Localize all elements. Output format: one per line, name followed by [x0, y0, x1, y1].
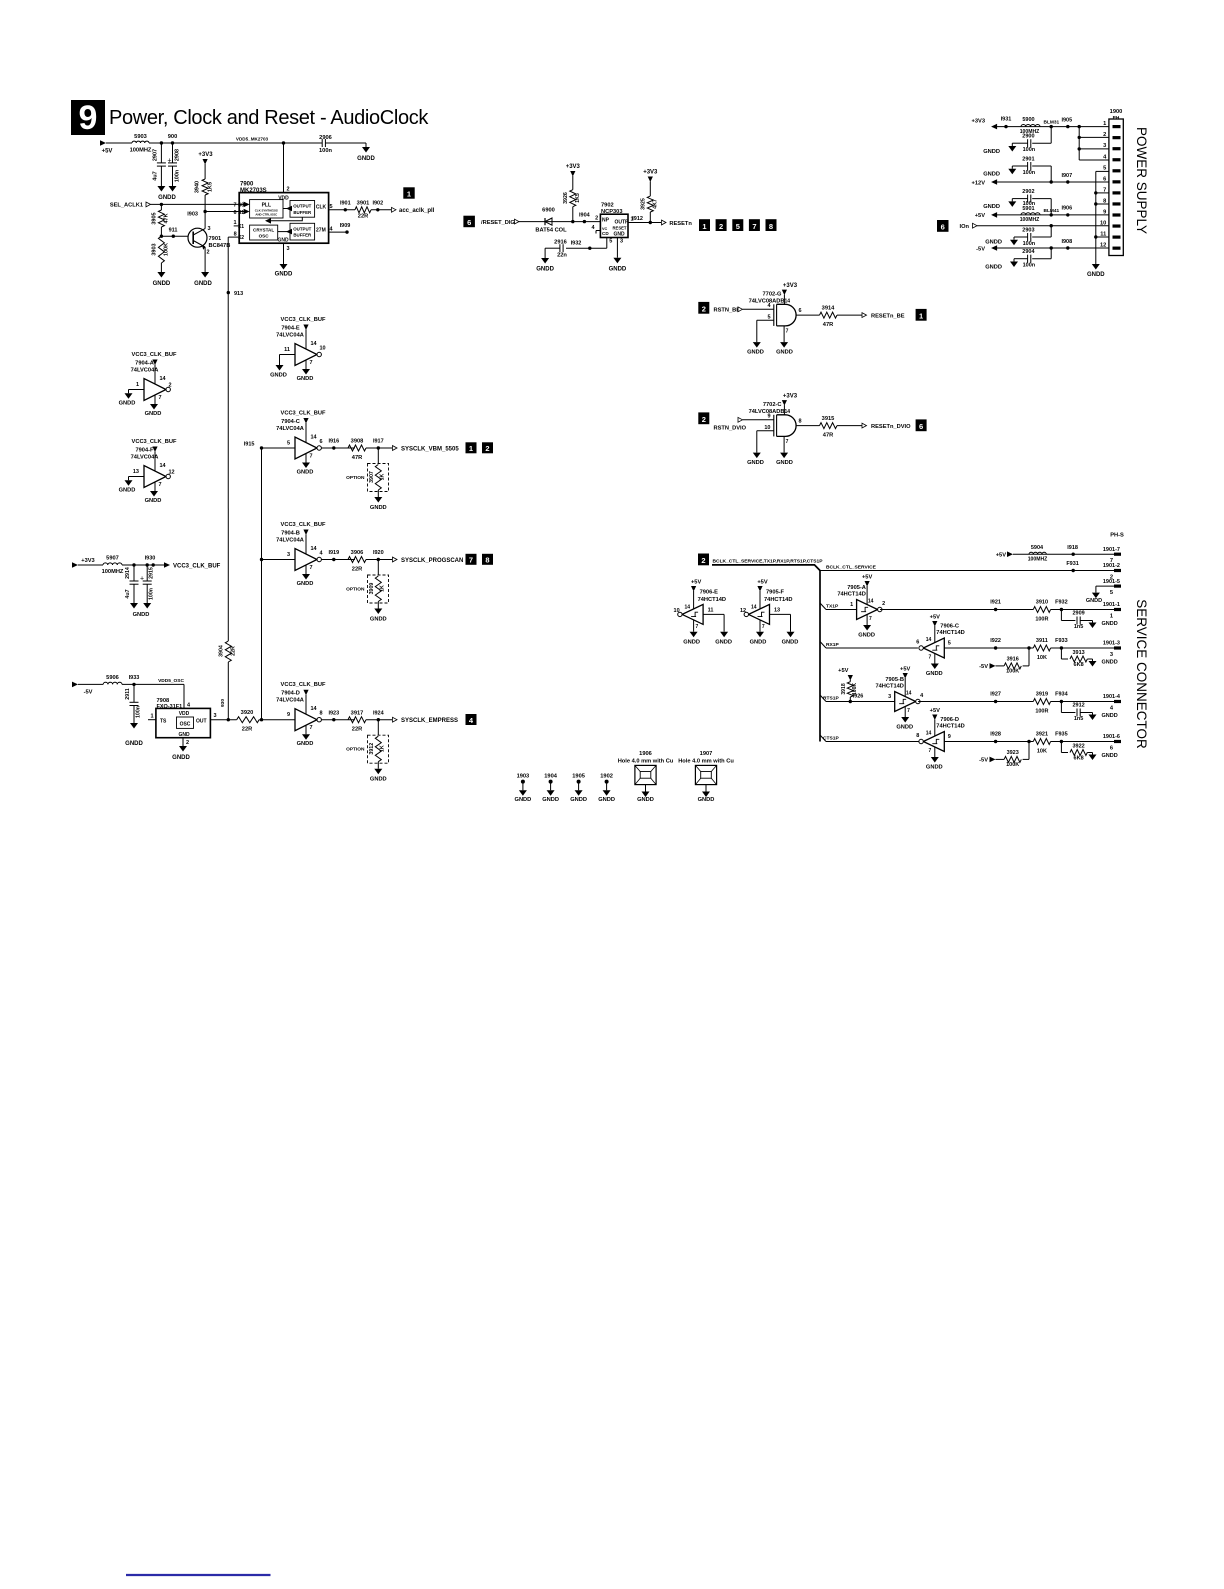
label SERVICE CONNECTOR — [1134, 599, 1149, 749]
svg-text:GNDD: GNDD — [985, 240, 1002, 246]
svg-text:47R: 47R — [352, 455, 362, 461]
svg-text:BCLK_CTL_SERVICE: BCLK_CTL_SERVICE — [826, 564, 877, 570]
svg-text:GNDD: GNDD — [698, 797, 715, 803]
svg-text:5: 5 — [1110, 590, 1113, 596]
svg-text:3916: 3916 — [1007, 656, 1019, 662]
svg-text:2904: 2904 — [1022, 249, 1035, 255]
svg-text:SERVICE CONNECTOR: SERVICE CONNECTOR — [1134, 599, 1149, 749]
svg-text:I923: I923 — [328, 710, 339, 716]
svg-text:+3V3: +3V3 — [81, 558, 94, 564]
ground GNDD conn — [1087, 264, 1105, 278]
svg-text:I906: I906 — [1061, 206, 1072, 212]
svg-text:1: 1 — [136, 382, 139, 388]
svg-text:I912: I912 — [632, 216, 643, 222]
svg-text:+3V3: +3V3 — [643, 170, 658, 176]
svg-text:+5V: +5V — [862, 575, 872, 581]
svg-text:100R: 100R — [1035, 709, 1048, 715]
svg-text:1900: 1900 — [1110, 109, 1123, 115]
svg-text:RSTN_BB: RSTN_BB — [714, 308, 741, 314]
wire — [545, 248, 560, 258]
svg-text:GNDD: GNDD — [896, 725, 913, 731]
svg-text:3923: 3923 — [1007, 750, 1019, 756]
svg-text:1: 1 — [407, 190, 411, 199]
svg-text:1: 1 — [150, 714, 153, 720]
ground GNDD at 2906 — [341, 143, 375, 162]
svg-text:3919: 3919 — [1036, 692, 1048, 698]
svg-text:GNDD: GNDD — [983, 149, 1000, 155]
svg-text:100MHZ: 100MHZ — [1028, 557, 1048, 563]
svg-text:VCC3_CLK_BUF: VCC3_CLK_BUF — [281, 522, 326, 528]
svg-text:GNDD: GNDD — [782, 640, 799, 646]
PLL block — [250, 200, 283, 218]
+3V3 rail — [972, 117, 1109, 130]
svg-text:74HCT14D: 74HCT14D — [936, 630, 964, 636]
svg-text:8: 8 — [916, 733, 919, 739]
svg-text:5: 5 — [1103, 165, 1106, 171]
svg-text:14: 14 — [311, 341, 318, 347]
wire emitter — [204, 247, 206, 272]
svg-text:7: 7 — [159, 482, 162, 488]
tag 2 bclk — [698, 554, 709, 566]
feedback arrow — [265, 217, 302, 223]
diode 6900 BAT54 — [535, 208, 567, 234]
svg-text:RESETn_DVIO: RESETn_DVIO — [871, 424, 911, 430]
svg-text:100MHZ: 100MHZ — [130, 148, 152, 154]
svg-text:+5V: +5V — [102, 149, 113, 155]
svg-text:OUT: OUT — [196, 719, 207, 725]
svg-text:7904-C: 7904-C — [281, 419, 300, 425]
-5V osc supply — [72, 682, 103, 696]
svg-text:1K: 1K — [380, 745, 386, 752]
svg-text:1907: 1907 — [700, 751, 713, 757]
oscillator 7908 FXO-31F — [148, 684, 210, 746]
wire — [149, 141, 284, 144]
svg-text:I901: I901 — [340, 201, 351, 207]
svg-text:2901: 2901 — [1022, 156, 1034, 162]
svg-text:3911: 3911 — [1036, 638, 1048, 644]
svg-text:OSC: OSC — [180, 722, 191, 728]
svg-text:7: 7 — [233, 203, 236, 209]
svg-text:3906: 3906 — [351, 550, 364, 556]
inverter 7906-D 74HCT14D — [916, 708, 964, 771]
svg-text:I924: I924 — [373, 710, 385, 716]
svg-text:Hole 4.0 mm with Cu: Hole 4.0 mm with Cu — [678, 758, 734, 764]
svg-text:SYSCLK_VBM_5505: SYSCLK_VBM_5505 — [401, 446, 459, 452]
svg-text:BAT54 COL: BAT54 COL — [535, 228, 567, 234]
svg-text:F932: F932 — [1055, 600, 1068, 606]
svg-text:3910: 3910 — [1036, 600, 1048, 606]
wire node I930 — [122, 556, 166, 567]
AND gate 7702-G 74LVC08ADB — [698, 283, 926, 356]
svg-text:2: 2 — [485, 444, 489, 453]
svg-text:BUFFER: BUFFER — [293, 210, 312, 215]
svg-text:6: 6 — [320, 439, 323, 445]
svg-text:3905: 3905 — [152, 212, 158, 224]
svg-text:100K: 100K — [1006, 668, 1019, 674]
svg-text:GNDD: GNDD — [609, 267, 627, 273]
svg-text:+3V3: +3V3 — [972, 119, 985, 125]
bus label — [713, 558, 824, 564]
svg-text:1906: 1906 — [639, 751, 652, 757]
net BCLK_CTL_SERVICE — [820, 564, 1073, 570]
title block number 9 — [71, 99, 105, 137]
tag 6 power — [937, 220, 949, 232]
test point 1904 — [542, 774, 559, 804]
svg-text:7901: 7901 — [209, 236, 222, 242]
svg-text:7902: 7902 — [601, 203, 614, 209]
svg-text:2912: 2912 — [1072, 702, 1084, 708]
svg-text:GNDD: GNDD — [153, 281, 171, 287]
svg-text:7702-G: 7702-G — [763, 292, 783, 298]
svg-text:8: 8 — [485, 556, 489, 565]
svg-text:I927: I927 — [990, 692, 1001, 698]
svg-text:GNDD: GNDD — [637, 797, 654, 803]
svg-text:+5V: +5V — [930, 615, 940, 621]
svg-text:2908: 2908 — [175, 149, 181, 161]
svg-text:GNDD: GNDD — [747, 350, 764, 356]
svg-text:7906-E: 7906-E — [700, 590, 719, 596]
svg-text:27M: 27M — [316, 228, 326, 234]
svg-text:GNDD: GNDD — [357, 156, 375, 162]
svg-text:OPTION: OPTION — [346, 747, 365, 753]
svg-text:7904-B: 7904-B — [281, 531, 300, 537]
svg-text:I930: I930 — [145, 556, 156, 562]
inductor 5900 — [1020, 117, 1060, 135]
svg-text:BLM41: BLM41 — [1044, 208, 1060, 214]
ground GNDD caps — [130, 603, 151, 618]
pin 6 S1 — [233, 209, 249, 216]
inverter 7905-B 74HCT14D — [875, 667, 924, 731]
svg-text:3: 3 — [287, 552, 290, 558]
svg-text:5: 5 — [736, 222, 740, 231]
svg-text:47R: 47R — [823, 433, 833, 439]
svg-text:PH-S: PH-S — [1110, 533, 1124, 539]
svg-text:5: 5 — [609, 238, 612, 244]
svg-text:12: 12 — [169, 470, 175, 476]
svg-text:GNDD: GNDD — [194, 281, 212, 287]
svg-text:7: 7 — [310, 565, 313, 571]
ground GNDD 2900 — [983, 143, 1016, 155]
wire X2 vertical — [227, 237, 244, 641]
svg-text:I909: I909 — [340, 223, 351, 229]
svg-text:7904-A: 7904-A — [135, 361, 154, 367]
IC 7902 NCP303 — [591, 203, 629, 238]
pin 1 X1 — [233, 220, 244, 230]
svg-text:+5V: +5V — [838, 668, 848, 674]
inverter 7904-A 74LVC04A — [119, 352, 177, 417]
svg-text:MK2703S: MK2703S — [240, 188, 267, 194]
capacitor 2915 — [143, 565, 155, 603]
pin 3 GND — [284, 243, 290, 264]
svg-text:S0: S0 — [238, 203, 244, 209]
svg-text:74LVC04A: 74LVC04A — [276, 698, 304, 704]
svg-text:47K: 47K — [164, 213, 170, 223]
inductor 5904 — [1028, 545, 1048, 563]
svg-text:BC847B: BC847B — [209, 243, 231, 249]
svg-text:3903: 3903 — [152, 243, 158, 255]
resistor 3905 — [152, 204, 170, 227]
svg-text:5900: 5900 — [1022, 117, 1034, 123]
svg-text:I917: I917 — [373, 439, 384, 445]
tag 6 reset dig — [463, 216, 475, 228]
svg-text:2: 2 — [702, 415, 706, 424]
ground GNDD osc — [172, 746, 190, 761]
svg-text:7904-E: 7904-E — [281, 326, 300, 332]
svg-text:S1: S1 — [238, 210, 244, 216]
svg-text:RSTN_DVIO: RSTN_DVIO — [714, 426, 747, 432]
svg-text:913: 913 — [234, 291, 243, 297]
wire — [519, 212, 600, 223]
svg-text:1903: 1903 — [517, 774, 530, 780]
svg-text:22R: 22R — [242, 727, 252, 733]
capacitor 2916 — [554, 240, 567, 259]
svg-text:6900: 6900 — [542, 208, 555, 214]
svg-text:VCC3_CLK_BUF: VCC3_CLK_BUF — [132, 352, 177, 358]
svg-text:BCLK_CTL_SERVICE,TX1P,RX1P,RTS: BCLK_CTL_SERVICE,TX1P,RX1P,RTS1P,CTS1P — [713, 558, 824, 564]
svg-text:1K: 1K — [380, 585, 386, 592]
+3V3 pullup 1 — [566, 164, 581, 190]
ground GNDD 2902 — [983, 199, 1016, 211]
svg-text:3940: 3940 — [195, 181, 201, 193]
svg-text:GNDD: GNDD — [1102, 660, 1118, 666]
svg-text:14: 14 — [685, 605, 691, 611]
ground GNDD emitter — [194, 272, 212, 287]
svg-text:6: 6 — [798, 308, 801, 314]
svg-text:GNDD: GNDD — [983, 172, 1000, 178]
svg-text:6: 6 — [467, 218, 471, 227]
svg-text:GNDD: GNDD — [1102, 753, 1118, 759]
svg-text:47R: 47R — [823, 322, 833, 328]
svg-text:F933: F933 — [1055, 638, 1068, 644]
inductor 5901 — [1020, 206, 1060, 223]
svg-text:+: + — [167, 158, 171, 165]
svg-text:Power, Clock and Reset - Audio: Power, Clock and Reset - AudioClock — [109, 107, 429, 129]
svg-text:Hole 4.0 mm with Cu: Hole 4.0 mm with Cu — [618, 758, 674, 764]
svg-text:100n: 100n — [136, 706, 142, 718]
svg-text:5906: 5906 — [106, 675, 119, 681]
svg-text:GNDD: GNDD — [145, 498, 162, 504]
svg-text:GNDD: GNDD — [370, 617, 387, 623]
svg-text:3: 3 — [287, 246, 290, 252]
ground GNDD 2903 — [985, 237, 1018, 246]
svg-text:I918: I918 — [1067, 545, 1078, 551]
svg-text:+12V: +12V — [972, 180, 986, 186]
svg-text:14: 14 — [868, 599, 874, 605]
net VCC3_CLK_BUF arrow — [164, 562, 221, 569]
svg-text:GNDD: GNDD — [926, 765, 943, 771]
svg-text:5: 5 — [767, 315, 770, 321]
svg-text:3909: 3909 — [369, 583, 375, 595]
svg-text:I919: I919 — [328, 550, 339, 556]
svg-text:100n: 100n — [1023, 263, 1036, 269]
svg-text:BLM31: BLM31 — [1044, 120, 1060, 126]
bottom blue line — [126, 1574, 271, 1576]
pin 1901-2 — [1103, 563, 1121, 580]
svg-text:22R: 22R — [352, 727, 362, 733]
svg-text:1901-2: 1901-2 — [1103, 563, 1120, 569]
svg-text:VDD: VDD — [278, 196, 289, 202]
svg-text:1n5: 1n5 — [1074, 716, 1083, 722]
svg-text:4K7: 4K7 — [653, 199, 659, 209]
wire — [151, 203, 240, 206]
svg-text:4: 4 — [1110, 705, 1114, 711]
+3V3 supply — [198, 152, 213, 179]
svg-text:RTS1P: RTS1P — [823, 695, 840, 701]
ground GNDD under 2908 — [158, 186, 176, 201]
svg-text:7900: 7900 — [240, 182, 254, 188]
svg-text:VCC3_CLK_BUF: VCC3_CLK_BUF — [281, 411, 326, 417]
svg-text:7: 7 — [310, 454, 313, 460]
tag 1 pll — [403, 187, 414, 198]
svg-text:7: 7 — [159, 395, 162, 401]
svg-text:3915: 3915 — [822, 416, 835, 422]
hole 1906 — [618, 751, 674, 803]
svg-text:1K5: 1K5 — [208, 182, 214, 192]
+5V rail — [975, 206, 1109, 220]
svg-text:I908: I908 — [1061, 239, 1072, 245]
wire 7906-C in — [944, 647, 995, 649]
svg-text:14: 14 — [926, 731, 932, 737]
-5V rail — [976, 239, 1109, 253]
svg-text:+5V: +5V — [996, 553, 1006, 559]
svg-text:-5V: -5V — [84, 690, 93, 696]
output net SYSCLK_EMPRESS — [321, 710, 476, 782]
arrow osc to buffer2 — [278, 229, 292, 235]
svg-text:GNDD: GNDD — [119, 400, 136, 406]
svg-text:GNDD: GNDD — [370, 777, 387, 783]
svg-text:14: 14 — [926, 637, 932, 643]
svg-text:I905: I905 — [1061, 117, 1072, 123]
svg-text:6K8: 6K8 — [1074, 662, 1084, 668]
svg-text:13: 13 — [774, 608, 780, 614]
svg-text:900: 900 — [168, 134, 178, 140]
svg-text:100n: 100n — [149, 588, 155, 600]
svg-text:I907: I907 — [1061, 173, 1072, 179]
capacitor 2914 — [125, 565, 144, 603]
svg-text:VCC3_CLK_BUF: VCC3_CLK_BUF — [132, 439, 177, 445]
svg-text:930: 930 — [220, 699, 226, 707]
inductor 5907 — [102, 556, 124, 576]
wire — [106, 142, 132, 144]
svg-text:RESET: RESET — [613, 226, 627, 231]
svg-text:GNDD: GNDD — [1102, 621, 1118, 627]
svg-text:3904: 3904 — [219, 645, 225, 657]
svg-text:74HCT14D: 74HCT14D — [764, 597, 792, 603]
svg-text:11: 11 — [284, 347, 290, 353]
wire pins 2-4 — [1078, 125, 1109, 160]
svg-text:I926: I926 — [853, 694, 864, 700]
svg-text:OUTPUT: OUTPUT — [293, 204, 311, 209]
svg-text:TX1P: TX1P — [826, 603, 839, 609]
svg-text:2: 2 — [701, 556, 705, 565]
svg-text:OUTPUT: OUTPUT — [293, 226, 311, 231]
resistor 3901 — [355, 201, 371, 220]
inverter 7906-E 74HCT14D spare — [674, 580, 732, 646]
svg-text:3: 3 — [214, 713, 217, 719]
svg-text:RESETn_BE: RESETn_BE — [871, 313, 905, 319]
svg-text:2903: 2903 — [1022, 227, 1034, 233]
svg-text:7905-F: 7905-F — [766, 590, 785, 596]
test point 1903 — [515, 774, 532, 804]
svg-text:1K5: 1K5 — [575, 193, 581, 203]
svg-text:4u7: 4u7 — [153, 171, 159, 180]
svg-text:/RESET_DIG: /RESET_DIG — [481, 220, 515, 226]
wire osc to buffer D — [259, 719, 295, 721]
svg-text:GNDD: GNDD — [297, 581, 314, 587]
svg-text:RESETn: RESETn — [669, 221, 692, 227]
wire — [220, 662, 228, 720]
svg-text:7905-B: 7905-B — [885, 677, 904, 683]
wire I915 bus — [244, 442, 295, 722]
pin1 out wire — [628, 216, 661, 224]
svg-text:7: 7 — [752, 222, 756, 231]
svg-text:2: 2 — [719, 222, 723, 231]
+12V rail — [972, 173, 1109, 187]
wire node I911 — [160, 227, 189, 238]
svg-text:4: 4 — [320, 551, 324, 557]
svg-text:NP: NP — [602, 218, 610, 224]
svg-text:10: 10 — [320, 346, 326, 352]
output RESETn — [662, 220, 693, 227]
svg-text:X2: X2 — [238, 235, 244, 241]
pin 8 X2 — [228, 231, 244, 241]
svg-text:PH: PH — [1113, 115, 1120, 121]
svg-text:GNDD: GNDD — [536, 267, 554, 273]
svg-text:9: 9 — [948, 734, 951, 740]
resistor 3920 — [237, 710, 260, 733]
svg-text:6: 6 — [1103, 176, 1106, 182]
TX1P RC network — [990, 600, 1121, 630]
tags 1 2 5 7 8 — [699, 219, 777, 231]
svg-text:2: 2 — [595, 216, 598, 222]
svg-text:CRYSTAL: CRYSTAL — [253, 228, 274, 233]
svg-text:GNDD: GNDD — [542, 797, 559, 803]
svg-text:14: 14 — [906, 691, 912, 697]
svg-text:GNDD: GNDD — [270, 373, 287, 379]
svg-text:RX1P: RX1P — [826, 642, 840, 648]
svg-text:8: 8 — [234, 231, 237, 237]
test point 1902 — [598, 774, 615, 804]
svg-text:7: 7 — [762, 624, 765, 630]
label POWER SUPPLY — [1134, 127, 1149, 234]
svg-text:GNDD: GNDD — [858, 633, 875, 639]
svg-text:-5V: -5V — [979, 758, 988, 764]
title text — [109, 107, 429, 129]
svg-text:4: 4 — [1103, 154, 1107, 160]
svg-text:+5V: +5V — [975, 213, 985, 219]
svg-text:74HCT14D: 74HCT14D — [936, 724, 964, 730]
svg-text:GNDD: GNDD — [598, 797, 615, 803]
net RTS1P — [820, 695, 895, 702]
svg-text:GNDD: GNDD — [715, 640, 732, 646]
svg-text:7: 7 — [310, 360, 313, 366]
svg-text:POWER SUPPLY: POWER SUPPLY — [1134, 127, 1149, 234]
svg-text:2907: 2907 — [153, 149, 159, 161]
svg-text:GNDD: GNDD — [750, 640, 767, 646]
pin 3 wire — [617, 238, 623, 258]
capacitor 2901 — [1012, 156, 1051, 182]
capacitor 2906 — [319, 135, 341, 154]
svg-text:11: 11 — [708, 608, 714, 614]
svg-text:100n: 100n — [319, 148, 332, 154]
svg-text:3920: 3920 — [241, 710, 254, 716]
svg-text:3918: 3918 — [841, 683, 847, 694]
resistor 3904 — [219, 641, 237, 662]
svg-text:10: 10 — [764, 425, 770, 431]
svg-text:VCC3_CLK_BUF: VCC3_CLK_BUF — [281, 682, 326, 688]
svg-text:911: 911 — [169, 228, 178, 234]
svg-text:I904: I904 — [579, 212, 591, 218]
